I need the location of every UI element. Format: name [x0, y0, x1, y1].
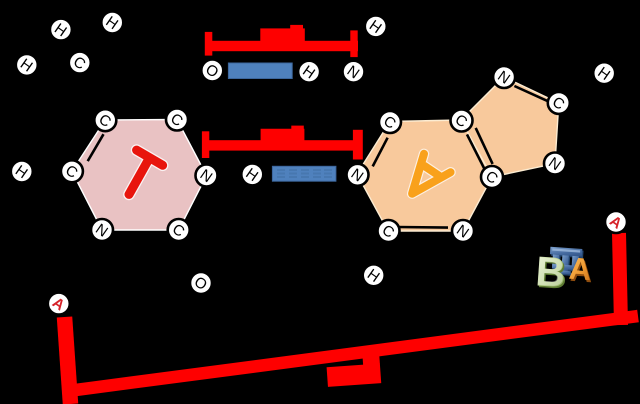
atom N21 (N) [493, 66, 515, 88]
atom H5 (H) [11, 161, 33, 183]
atom C24 (C) [481, 166, 503, 188]
svg-text:A: A [568, 251, 593, 287]
atom C8 (C) [166, 109, 188, 131]
thymine double bond C5=C6 [88, 134, 104, 161]
adenine double bond N7=C8 (pentagon) [514, 86, 547, 101]
atom H27 (H) [363, 264, 385, 286]
atom H13 (H) [298, 61, 320, 83]
dimension line 2 (N-H...N) [202, 126, 363, 160]
letter A (adenine) [412, 154, 451, 194]
atom H15 (H) [365, 15, 387, 37]
atom C4 (C) [69, 52, 91, 74]
adenine double bond N1=C6 [373, 138, 388, 167]
atom C6 (C) [61, 160, 83, 182]
atom H16 (H) [593, 62, 615, 84]
adenine pentagon ring [461, 77, 559, 177]
logo letter A [568, 251, 594, 290]
atom H1 (H) [50, 19, 72, 41]
atom H3 (H) [16, 54, 38, 76]
dimension line 1 (O...H-N) [205, 25, 358, 57]
atom N18 (N) [347, 164, 369, 186]
faint glyphs in blue box 2 [277, 169, 332, 178]
atom C25 (C) [378, 220, 400, 242]
logo letter B [534, 247, 569, 298]
bottom dimension line (N...N glycosidic) [65, 233, 639, 404]
letter T (thymine) [129, 150, 163, 194]
atom C20 (C) [451, 110, 473, 132]
atom N14 (N) [343, 61, 365, 83]
atom O28 (O) [190, 272, 212, 294]
atom C19 (C) [379, 111, 401, 133]
node markerA-left [48, 293, 70, 315]
atom N26 (N) [452, 220, 474, 242]
logo letter Psi [549, 247, 584, 277]
atom N9 (N) [196, 165, 218, 187]
blue label box 1 [228, 63, 292, 79]
atom N23 (N) [544, 153, 566, 175]
atom H17 (H) [241, 163, 263, 185]
atom H2 (H) [101, 12, 123, 34]
svg-text:B: B [535, 250, 567, 296]
adenine hexagon ring [357, 120, 492, 231]
atom C11 (C) [168, 219, 190, 241]
atom N10 (N) [91, 219, 113, 241]
thymine ring [72, 120, 207, 231]
atom C7 (C) [94, 109, 116, 131]
atom O12 (O) [201, 60, 223, 82]
adenine double bond C4=C5 (two lines) [467, 134, 485, 170]
atom circles [11, 12, 627, 315]
node markerA-right [605, 211, 627, 233]
blue label box 2 [272, 166, 336, 181]
adenine double bond C2=N3 (bottom) [397, 226, 448, 229]
atom C22 (C) [548, 92, 570, 114]
